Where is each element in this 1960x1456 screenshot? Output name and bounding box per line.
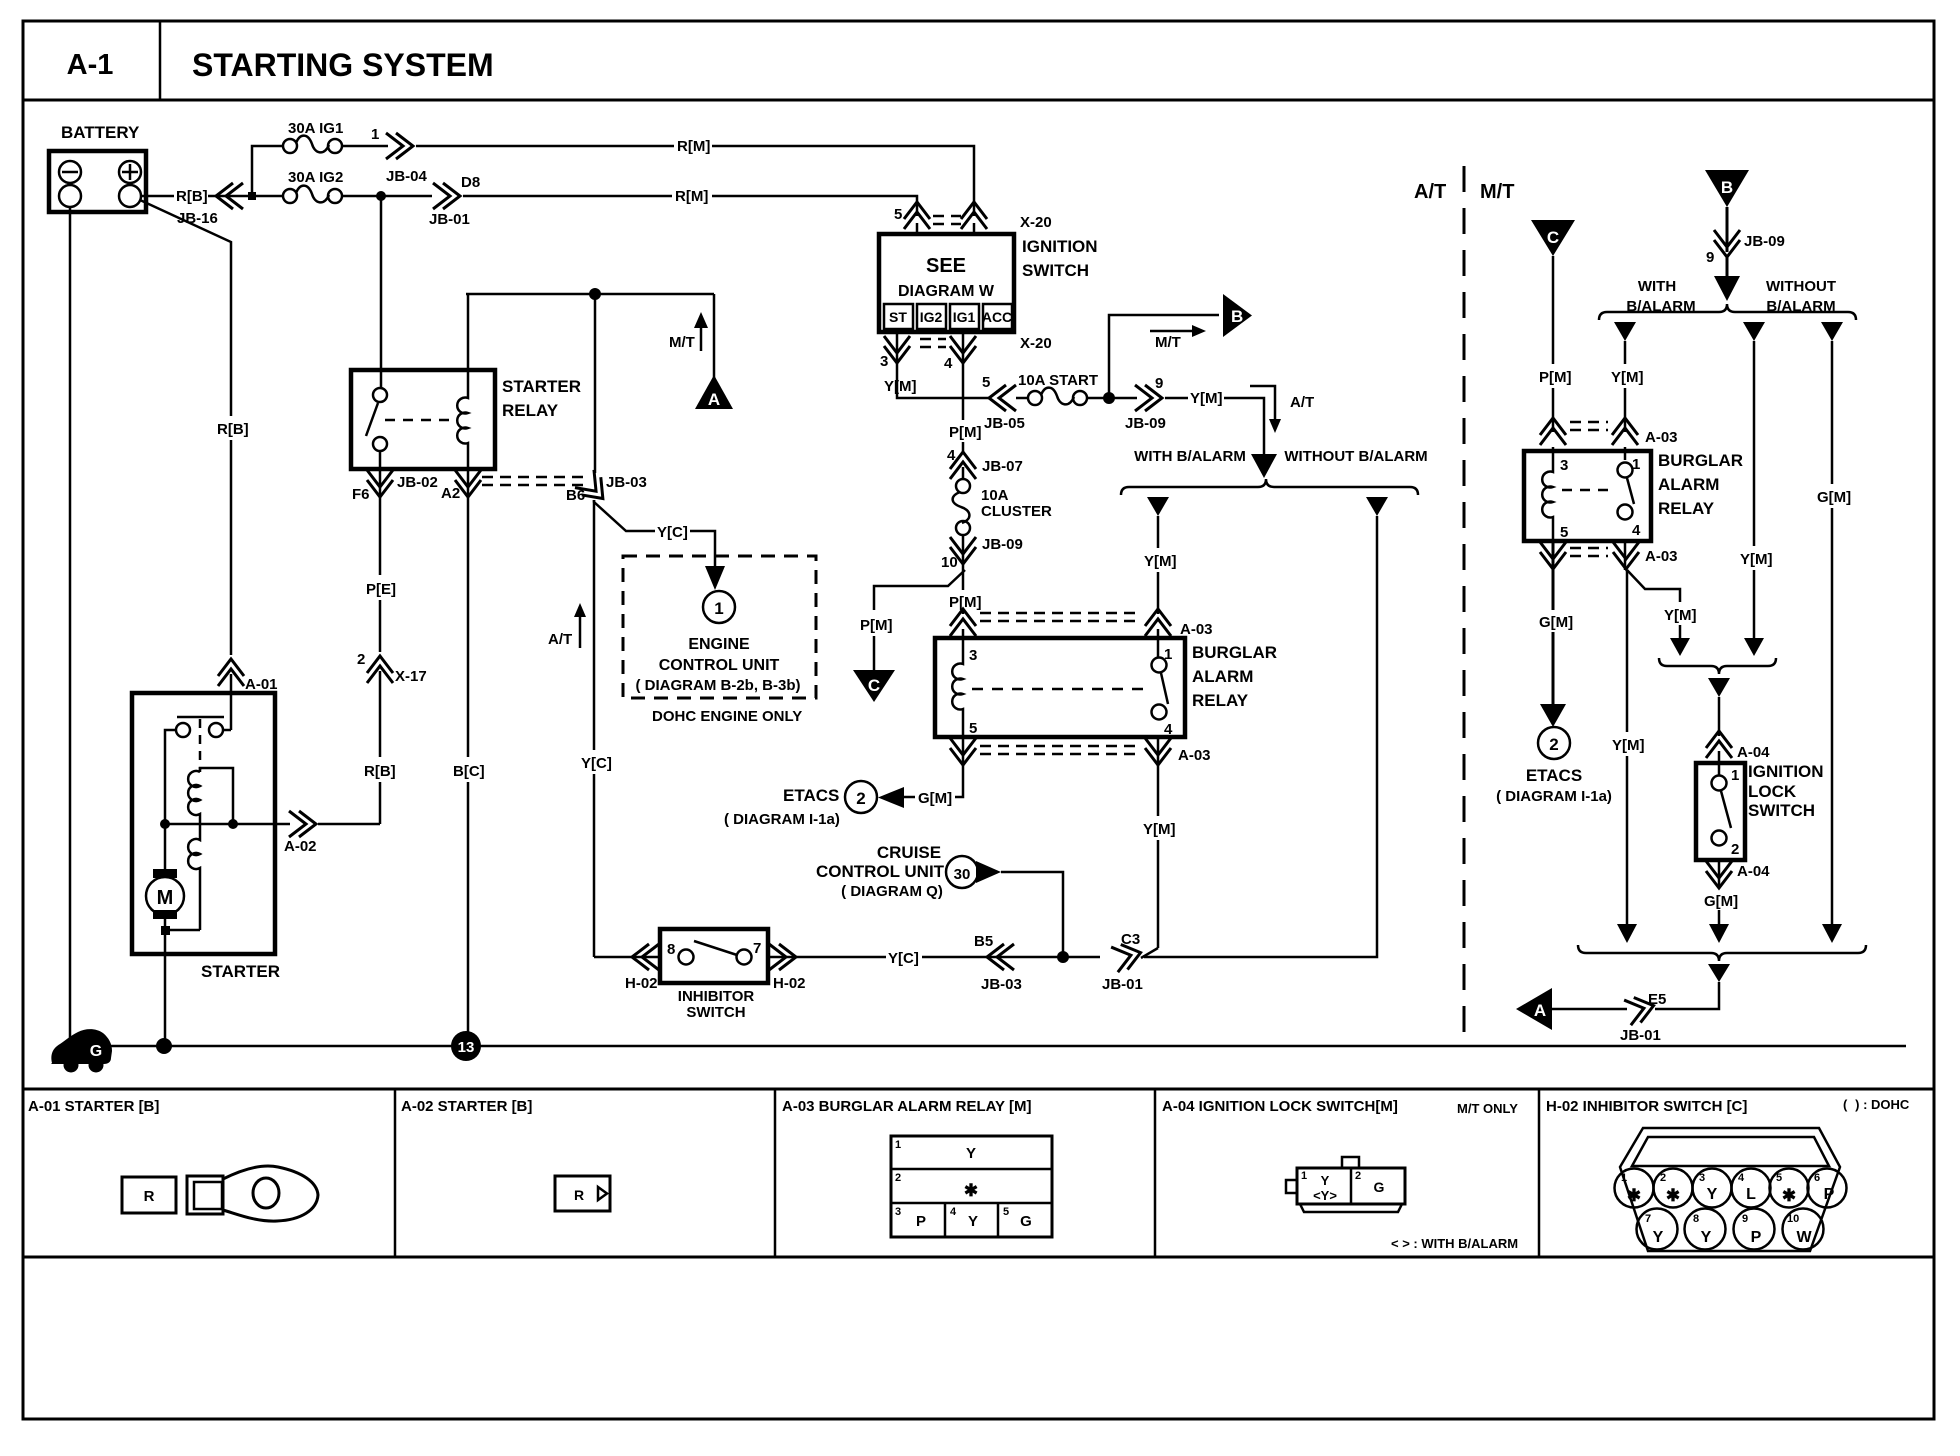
connector A-03 above M/T relay right (1612, 418, 1638, 445)
svg-text:B5: B5 (974, 933, 993, 950)
M/T relay contacts (1618, 463, 1633, 478)
svg-text:( DIAGRAM I-1a): ( DIAGRAM I-1a) (724, 811, 840, 828)
junction dot on inhibitor line (1057, 951, 1069, 963)
arrow into ETACS 2 (878, 787, 904, 808)
svg-text:3: 3 (895, 1206, 901, 1218)
svg-text:F6: F6 (352, 486, 370, 503)
wire pin3 down to start line (897, 364, 990, 398)
svg-text:BURGLAR: BURGLAR (1658, 451, 1743, 470)
connector C3/JB-01 (1111, 940, 1144, 972)
wire P[E] down (379, 505, 382, 575)
svg-text:P[M]: P[M] (860, 617, 893, 634)
svg-text:IG2: IG2 (920, 309, 943, 325)
svg-text:G: G (1374, 1179, 1385, 1195)
svg-text:30A IG2: 30A IG2 (288, 169, 343, 186)
svg-text:SWITCH: SWITCH (686, 1004, 745, 1021)
ignition switch cell ACC (983, 304, 1012, 329)
svg-text:6: 6 (1814, 1172, 1820, 1184)
svg-text:2: 2 (1660, 1172, 1666, 1184)
svg-text:H-02 INHIBITOR SWITCH [C]: H-02 INHIBITOR SWITCH [C] (1546, 1098, 1747, 1115)
svg-text:P: P (1751, 1229, 1762, 1246)
split brace (M/T) (1599, 304, 1856, 320)
svg-text:10: 10 (941, 554, 958, 571)
svg-text:G: G (90, 1043, 102, 1060)
wire coil top to y294 line (467, 294, 470, 370)
svg-text:A/T: A/T (548, 631, 572, 648)
svg-text:Y[M]: Y[M] (1144, 553, 1177, 570)
svg-text:7: 7 (1645, 1213, 1651, 1225)
lock switch end arrow (1709, 924, 1729, 943)
svg-text:3: 3 (969, 647, 977, 664)
svg-text:ALARM: ALARM (1192, 667, 1253, 686)
M/T relay dashed link (1562, 489, 1614, 492)
connector A-04 below (1718, 860, 1721, 888)
wire battery plus to R[B] label (141, 195, 174, 198)
svg-text:P[M]: P[M] (1539, 369, 1572, 386)
svg-text:WITHOUT B/ALARM: WITHOUT B/ALARM (1284, 448, 1427, 465)
svg-text:A2: A2 (441, 485, 460, 502)
wire branch3 down to big merge (1831, 341, 1834, 484)
wire pin5 to ETACS corner (955, 768, 963, 797)
junction dot starter ground (156, 1038, 172, 1054)
svg-text:2: 2 (357, 651, 365, 668)
junction node at fuse branch (248, 192, 256, 200)
svg-text:JB-05: JB-05 (984, 415, 1025, 432)
svg-text:P: P (916, 1213, 926, 1230)
svg-text:2: 2 (895, 1172, 901, 1184)
branch end arrow (1670, 638, 1690, 656)
connector X-20 pin 4 below IG1 (962, 332, 965, 364)
wire A-01 bend into contact (223, 729, 231, 732)
branch to C triangle (874, 570, 965, 610)
footer table bottom border (23, 1256, 1934, 1259)
wire big merge to corner (1655, 982, 1719, 1009)
svg-text:RELAY: RELAY (502, 401, 559, 420)
svg-text:M/T: M/T (1155, 334, 1181, 351)
wire G[M] down to ETACS (M/T) (1552, 572, 1555, 610)
svg-text:Y: Y (1701, 1229, 1712, 1246)
branch2 end arrow (1744, 638, 1764, 656)
ignition switch box (879, 234, 1014, 332)
svg-text:4: 4 (944, 355, 953, 372)
wire down to A triangle (713, 294, 716, 380)
A-04 connector graphic (1297, 1168, 1405, 1204)
junction dot starter relay branch (376, 191, 386, 201)
ground car symbol (51, 1029, 112, 1064)
connector JB-04 (386, 133, 413, 159)
wire fuse to junction (1086, 397, 1137, 400)
svg-text:Y[C]: Y[C] (888, 950, 919, 967)
triangle connector C (A/T) (853, 670, 895, 702)
svg-text:X-20: X-20 (1020, 335, 1052, 352)
connector JB-01 (D8) (433, 183, 460, 209)
M/T relay coil (1542, 460, 1553, 541)
junction dot y294 (589, 288, 601, 300)
starter plunger dashed (199, 719, 202, 770)
wire B[C] down from A2 (467, 505, 470, 757)
svg-text:H-02: H-02 (625, 975, 658, 992)
svg-text:DOHC ENGINE ONLY: DOHC ENGINE ONLY (652, 708, 802, 725)
svg-text:WITH B/ALARM: WITH B/ALARM (1134, 448, 1246, 465)
svg-text:A-03 BURGLAR ALARM RELAY [M]: A-03 BURGLAR ALARM RELAY [M] (782, 1098, 1031, 1115)
svg-text:H-02: H-02 (773, 975, 806, 992)
svg-text:8: 8 (667, 941, 675, 958)
svg-text:M/T ONLY: M/T ONLY (1457, 1101, 1518, 1116)
wire A-02 to relay leg (318, 823, 380, 826)
svg-text:5: 5 (982, 374, 990, 391)
svg-text:4: 4 (950, 1206, 957, 1218)
relay coil (952, 648, 963, 737)
A-02 terminal graphic (555, 1176, 610, 1211)
svg-text:CRUISE: CRUISE (877, 843, 941, 862)
relay dashed link (385, 419, 456, 422)
connector A-01 (218, 659, 244, 686)
svg-text:7: 7 (753, 940, 761, 957)
svg-text:2: 2 (1355, 1170, 1361, 1182)
svg-text:ETACS: ETACS (783, 786, 839, 805)
svg-text:9: 9 (1742, 1213, 1748, 1225)
junction dot start/B branch (1103, 392, 1115, 404)
svg-text:BURGLAR: BURGLAR (1192, 643, 1277, 662)
ignition switch cell ST (884, 304, 913, 329)
svg-text:BATTERY: BATTERY (61, 123, 140, 142)
connector A-04 (lock switch top) (1706, 731, 1732, 758)
relay switch lever (366, 403, 378, 436)
branch arrow WITHOUT (A/T) (1366, 497, 1388, 516)
node 13 badge (451, 1031, 481, 1061)
svg-text:2: 2 (1549, 735, 1558, 754)
svg-text:2: 2 (856, 789, 865, 808)
svg-text:8: 8 (1693, 1213, 1699, 1225)
svg-text:JB-09: JB-09 (1744, 233, 1785, 250)
svg-text:G: G (1020, 1213, 1032, 1230)
pin4 end arrow (1617, 924, 1637, 943)
A/T tap annotation (1250, 386, 1275, 419)
svg-text:10A: 10A (981, 487, 1009, 504)
svg-text:A-02: A-02 (284, 838, 317, 855)
svg-text:B6: B6 (566, 487, 585, 504)
wire pin4 continues to relay (962, 566, 965, 590)
wire pin4 straight down to big merge (M/T) (1626, 570, 1629, 732)
ETACS circled 2 (M/T) (1538, 727, 1570, 759)
ignition lock switch box (1696, 763, 1745, 860)
footer column dividers (394, 1089, 397, 1257)
svg-text:4: 4 (1738, 1172, 1745, 1184)
inhibitor contacts (679, 950, 694, 965)
wire hold-in to motor bottom (165, 929, 200, 932)
svg-text:WITHOUT: WITHOUT (1766, 278, 1836, 295)
svg-text:10A START: 10A START (1018, 372, 1098, 389)
connector JB-07 (950, 452, 976, 479)
svg-text:Y[M]: Y[M] (1611, 369, 1644, 386)
relay coil (457, 370, 468, 469)
A/T up arrow annotation on Y[C] (579, 617, 582, 648)
H-02 connector graphic (1620, 1128, 1840, 1251)
connector A-03 below relay left (962, 737, 965, 768)
svg-text:JB-04: JB-04 (386, 168, 428, 185)
svg-text:JB-01: JB-01 (1102, 976, 1143, 993)
wire battery plus diagonal to starter A-01 (140, 200, 231, 416)
svg-text:A-04: A-04 (1737, 863, 1770, 880)
wire fuse IG1 to JB-04 (341, 145, 388, 148)
merged output arrow (1708, 678, 1730, 697)
triangle connector C (M/T source) (1531, 220, 1575, 256)
ignition switch cell IG1 (950, 304, 979, 329)
cruise circled 30 (946, 856, 978, 888)
svg-text:X-20: X-20 (1020, 214, 1052, 231)
svg-text:STARTING SYSTEM: STARTING SYSTEM (192, 47, 494, 83)
svg-text:4: 4 (1164, 721, 1173, 738)
svg-text:30: 30 (954, 866, 971, 883)
svg-text:JB-16: JB-16 (177, 210, 218, 227)
svg-text:JB-07: JB-07 (982, 458, 1023, 475)
svg-text:LOCK: LOCK (1748, 782, 1797, 801)
svg-text:STARTER: STARTER (502, 377, 581, 396)
wire R[M] second run (463, 195, 672, 198)
svg-text:R[B]: R[B] (176, 188, 208, 205)
svg-text:RELAY: RELAY (1192, 691, 1249, 710)
svg-text:P[E]: P[E] (366, 581, 396, 598)
connector X-20 left (ignition sw pin 5) (904, 202, 930, 229)
svg-text:✱: ✱ (1666, 1186, 1680, 1205)
wire to A/T corner (1224, 398, 1264, 454)
svg-text:✱: ✱ (1627, 1186, 1641, 1205)
wire pin4 down (962, 364, 965, 420)
inhibitor lever (694, 941, 737, 955)
starter hold-in coil (188, 824, 200, 930)
svg-text:3: 3 (1560, 457, 1568, 474)
wire branch2 down to small merge (1753, 341, 1756, 546)
triangle connector A (A/T) (695, 375, 733, 409)
H-02 pin circles row2 (1637, 1209, 1678, 1250)
M/T relay lever (1627, 478, 1634, 504)
branch3 end arrow (1822, 924, 1842, 943)
starter contact circles (176, 723, 190, 737)
double dashed run A2 to B6 (482, 476, 586, 479)
connector JB-02 (F6) (379, 451, 382, 505)
svg-text:✱: ✱ (1782, 1186, 1796, 1205)
wire B branch up (1109, 315, 1219, 398)
wire left contact down (165, 730, 176, 824)
svg-text:< > : WITH B/ALARM: < > : WITH B/ALARM (1391, 1236, 1518, 1251)
H-02 pin circles row1 (1615, 1169, 1654, 1208)
battery box (49, 151, 146, 212)
svg-text:WITH: WITH (1638, 278, 1676, 295)
relay dashed link (972, 688, 1148, 691)
svg-text:1: 1 (371, 126, 379, 143)
svg-text:B[C]: B[C] (453, 763, 485, 780)
connector A-03 below M/T relay right (1624, 541, 1627, 570)
split brace (A/T) (1121, 479, 1418, 495)
branch arrow 3 (M/T) (1821, 322, 1843, 341)
svg-text:13: 13 (458, 1039, 475, 1056)
svg-text:C: C (868, 676, 880, 695)
svg-text:A-1: A-1 (67, 49, 114, 81)
svg-text:A-03: A-03 (1645, 429, 1678, 446)
connector B5/JB-03 (987, 944, 1014, 970)
svg-text:Y: Y (1707, 1186, 1718, 1203)
relay switch contacts (373, 388, 387, 402)
wire cruise to junction (1001, 872, 1063, 957)
svg-text:R: R (574, 1187, 584, 1203)
svg-text:P: P (1824, 1186, 1835, 1203)
svg-text:A-03: A-03 (1178, 747, 1211, 764)
svg-text:Y[C]: Y[C] (657, 524, 688, 541)
inhibitor switch box (660, 929, 768, 983)
relay contacts (1152, 658, 1167, 673)
wire A-01 into starter (230, 674, 233, 730)
svg-text:1: 1 (1301, 1170, 1307, 1182)
battery plus terminal symbol (119, 161, 141, 183)
svg-text:A: A (1534, 1001, 1546, 1020)
starter pull-in coil (188, 771, 200, 824)
svg-text:5: 5 (1560, 524, 1568, 541)
svg-text:9: 9 (1155, 375, 1163, 392)
ground bus wire (60, 1045, 1906, 1048)
svg-text:INHIBITOR: INHIBITOR (678, 988, 755, 1005)
burglar alarm relay box (935, 638, 1185, 737)
svg-text:P[M]: P[M] (949, 594, 982, 611)
lock switch lever (1721, 791, 1731, 828)
double dashed below (1570, 547, 1608, 550)
merge brace (small, M/T) (1659, 658, 1776, 674)
A-01 ring terminal (187, 1176, 223, 1214)
arrow onto brace (1251, 454, 1277, 478)
svg-text:Y: Y (1321, 1173, 1330, 1188)
connector H-02 left (632, 944, 659, 970)
svg-text:A-03: A-03 (1645, 548, 1678, 565)
wire branch1 down (1624, 341, 1627, 364)
svg-text:A-01: A-01 (245, 676, 278, 693)
wire B6 diagonal to Y[C] (594, 500, 655, 531)
wire relay branch down from IG2 junction (380, 196, 383, 388)
svg-text:5: 5 (894, 206, 902, 223)
svg-text:JB-09: JB-09 (1125, 415, 1166, 432)
M/T right arrow annotation (1150, 330, 1192, 333)
A-03 connector graphic (891, 1136, 1052, 1237)
svg-text:<Y>: <Y> (1313, 1188, 1337, 1203)
svg-text:A-04 IGNITION LOCK SWITCH[M]: A-04 IGNITION LOCK SWITCH[M] (1162, 1098, 1398, 1115)
connector JB-03 (B6) (575, 470, 612, 507)
svg-text:A-04: A-04 (1737, 744, 1770, 761)
connector JB-16 (216, 183, 243, 209)
connector A-03 above M/T relay left (1540, 418, 1566, 445)
svg-text:CLUSTER: CLUSTER (981, 503, 1052, 520)
svg-text:Y[M]: Y[M] (1612, 737, 1645, 754)
svg-text:ACC: ACC (982, 309, 1012, 325)
svg-text:W: W (1796, 1229, 1812, 1246)
wire R[B] to JB-16 (208, 195, 252, 198)
battery minus post (59, 185, 81, 207)
svg-text:Y[M]: Y[M] (1664, 607, 1697, 624)
svg-text:( DIAGRAM I-1a): ( DIAGRAM I-1a) (1496, 788, 1612, 805)
svg-text:CONTROL UNIT: CONTROL UNIT (816, 862, 945, 881)
wire switch to Y[C] label (768, 956, 886, 959)
connector A-02 arrow (289, 811, 316, 837)
svg-text:JB-01: JB-01 (1620, 1027, 1661, 1044)
lock switch contacts (1712, 776, 1727, 791)
svg-text:30A IG1: 30A IG1 (288, 120, 343, 137)
A/T M/T divider dashed (1463, 166, 1466, 1040)
connector A2 on relay coil (467, 469, 470, 505)
connector X-17 (367, 656, 393, 683)
svg-text:G[M]: G[M] (1817, 489, 1851, 506)
dashes between lower X-20 pair (920, 338, 946, 341)
svg-text:JB-02: JB-02 (397, 474, 438, 491)
svg-text:ETACS: ETACS (1526, 766, 1582, 785)
svg-text:1: 1 (895, 1139, 901, 1151)
svg-text:G[M]: G[M] (918, 790, 952, 807)
branch arrow 2 (M/T) (1743, 322, 1765, 341)
wire branch WITH down to A-03 (1157, 516, 1160, 548)
svg-text:R[B]: R[B] (364, 763, 396, 780)
svg-text:R[B]: R[B] (217, 421, 249, 438)
svg-text:P[M]: P[M] (949, 424, 982, 441)
wire C3 to M/T corner (1144, 524, 1377, 957)
svg-text:1: 1 (714, 599, 723, 618)
wire relay top link (466, 293, 714, 296)
svg-text:JB-01: JB-01 (429, 211, 470, 228)
svg-text:C3: C3 (1121, 931, 1140, 948)
wire Y[C] to B5 (922, 956, 1100, 959)
svg-text:( ) : DOHC: ( ) : DOHC (1843, 1097, 1910, 1112)
svg-text:C: C (1547, 228, 1559, 247)
branch arrow 1 (M/T WITH) (1614, 322, 1636, 341)
svg-text:Y[C]: Y[C] (581, 755, 612, 772)
wire Y[C] to ECU arrow (690, 531, 715, 566)
ETACS circled 2 (845, 781, 877, 813)
fuse 10A CLUSTER (962, 467, 965, 480)
connector E5/JB-01 (1624, 993, 1657, 1025)
wire fuse IG2 to junction (341, 195, 432, 198)
starter internal bus to A-02 (165, 823, 290, 826)
svg-text:A: A (708, 390, 720, 409)
svg-text:ALARM: ALARM (1658, 475, 1719, 494)
arrow onto M/T brace (1714, 276, 1740, 301)
svg-text:Y[M]: Y[M] (884, 378, 917, 395)
ignition switch cell IG2 (917, 304, 946, 329)
starter motor M (164, 824, 167, 872)
starter box (132, 693, 275, 954)
wire R[B] down to starter A-02 line (379, 671, 382, 757)
svg-text:Y[M]: Y[M] (1143, 821, 1176, 838)
title bar bottom rule (23, 99, 1934, 102)
wire to A-04 (1718, 697, 1721, 736)
svg-text:2: 2 (1731, 841, 1739, 858)
connector A-03 below relay right (1157, 737, 1160, 768)
svg-text:SEE: SEE (926, 255, 966, 277)
svg-text:A-01 STARTER [B]: A-01 STARTER [B] (28, 1098, 159, 1115)
label Y[M] on start wire (1165, 397, 1188, 400)
fuse 10A START (1016, 397, 1029, 400)
svg-text:B: B (1231, 307, 1243, 326)
svg-text:Y: Y (1653, 1229, 1664, 1246)
dashes between X-20 pair (933, 215, 961, 218)
svg-text:ST: ST (889, 309, 907, 325)
svg-text:5: 5 (1003, 1206, 1009, 1218)
svg-text:B: B (1721, 178, 1733, 197)
svg-text:JB-09: JB-09 (982, 536, 1023, 553)
svg-text:A/T: A/T (1290, 394, 1314, 411)
triangle connector A (M/T dest) (1516, 988, 1552, 1030)
svg-text:5: 5 (1776, 1172, 1782, 1184)
arrow into ETACS 2 (M/T) (1540, 704, 1566, 727)
svg-text:SWITCH: SWITCH (1748, 801, 1815, 820)
wire branch WITHOUT down (drawn above to corner) (1376, 516, 1379, 524)
svg-text:( DIAGRAM B-2b, B-3b): ( DIAGRAM B-2b, B-3b) (636, 677, 801, 694)
branch arrow WITH (A/T) (1147, 497, 1169, 516)
svg-text:3: 3 (880, 353, 888, 370)
